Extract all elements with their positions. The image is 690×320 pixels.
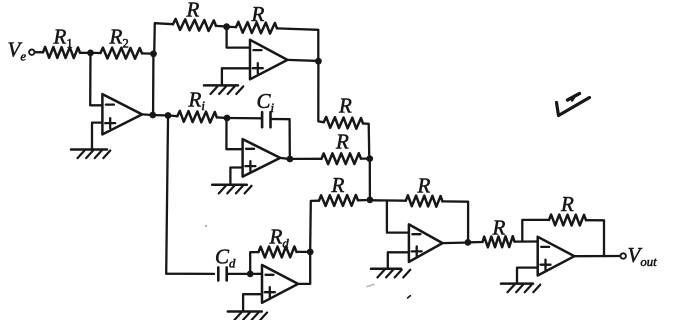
wire: [387, 201, 409, 233]
input terminal Ve: [8, 38, 35, 64]
resistor R (U4 feedback): [406, 174, 443, 207]
resistor R (P input): [173, 0, 216, 31]
svg-text:R: R: [417, 174, 431, 198]
wire: [156, 114, 166, 117]
ground: [228, 312, 267, 320]
wire: [243, 294, 262, 311]
svg-text:Ri: Ri: [188, 87, 206, 113]
ground: [212, 185, 251, 194]
svg-text:R: R: [338, 94, 352, 118]
wire: [515, 240, 538, 242]
resistor R (P output): [324, 94, 363, 129]
wire: [154, 23, 173, 54]
svg-text:Ci: Ci: [257, 89, 275, 115]
wire: [271, 119, 290, 156]
wire: [92, 123, 102, 150]
wire: [443, 201, 469, 238]
wire: [227, 27, 250, 48]
wire: [230, 26, 236, 29]
wire: [586, 220, 604, 256]
wire: [227, 273, 247, 275]
node O2: [315, 58, 322, 65]
node X1: [149, 112, 156, 119]
wire: [287, 59, 315, 62]
wire: [574, 255, 620, 258]
node T1: [223, 23, 230, 30]
ground: [371, 269, 410, 278]
svg-text:Cd: Cd: [215, 245, 236, 271]
wire: [217, 116, 224, 119]
wire: [363, 124, 369, 156]
svg-text:R: R: [560, 192, 574, 216]
wire: [90, 53, 102, 105]
resistor R2: [101, 25, 143, 59]
wire: [471, 241, 482, 244]
wire: [522, 220, 549, 242]
stray speck: [408, 296, 411, 298]
wire: [310, 201, 319, 249]
wire: [142, 113, 150, 116]
resistor R (I output): [322, 130, 362, 165]
op-amp U1: [102, 94, 142, 134]
wire: [226, 121, 242, 150]
wire: [80, 52, 88, 54]
svg-text:R1: R1: [53, 25, 73, 51]
resistor Rd: [259, 225, 297, 258]
wire: [298, 255, 310, 284]
node X2: [165, 112, 172, 119]
svg-text:R: R: [331, 173, 345, 197]
ground: [501, 284, 540, 293]
node S2 (summing node): [367, 197, 374, 204]
wire: [216, 25, 223, 28]
resistor Ri: [177, 87, 216, 122]
capacitor Ci: [257, 89, 275, 127]
op-amp U2: [250, 40, 287, 80]
svg-text:Ve: Ve: [8, 38, 27, 64]
wire: [35, 51, 43, 53]
wire: [318, 65, 324, 123]
op-amp U6: [262, 265, 298, 303]
wire: [230, 168, 242, 185]
wire: [152, 57, 155, 112]
svg-text:R: R: [186, 0, 200, 22]
node Ji: [224, 115, 231, 122]
wire: [253, 273, 262, 275]
wire: [443, 241, 465, 244]
stray faint scratch: [367, 284, 374, 286]
wire: [280, 157, 287, 160]
wire: [297, 251, 307, 253]
op-amp U4: [409, 224, 443, 262]
wire: [517, 268, 538, 284]
svg-text:R2: R2: [109, 25, 129, 51]
node O4: [465, 239, 472, 246]
node S1: [366, 155, 373, 162]
stray speck: [205, 225, 207, 227]
resistor R1: [43, 25, 80, 59]
wire: [361, 157, 367, 159]
wire: [142, 52, 151, 54]
wire: [358, 199, 366, 201]
resistor R (D output): [319, 173, 358, 206]
node B: [150, 50, 157, 57]
wire: [222, 68, 250, 85]
resistor R (op-amp U2 feedback): [236, 2, 277, 34]
svg-text:R: R: [335, 130, 349, 154]
node Jrd: [307, 249, 314, 256]
output terminal Vout: [621, 243, 658, 269]
wire: [293, 158, 322, 160]
node A: [87, 50, 94, 57]
wire: [369, 162, 371, 197]
wire: [388, 252, 409, 268]
op-amp U3: [243, 139, 281, 177]
node Jd: [247, 271, 254, 278]
stray checkmark mark: [557, 94, 590, 116]
ground: [71, 150, 110, 159]
wire: [171, 114, 178, 117]
wire: [373, 199, 406, 202]
resistor R (U5 input): [483, 216, 515, 248]
wire: [250, 252, 258, 271]
svg-text:Vout: Vout: [628, 243, 658, 269]
svg-text:R: R: [251, 2, 265, 26]
resistor R (U5 feedback): [549, 192, 586, 226]
svg-text:Rd: Rd: [269, 225, 290, 251]
wire: [166, 119, 214, 274]
ground: [204, 85, 243, 94]
wire: [93, 52, 101, 54]
capacitor Cd: [215, 245, 236, 281]
node O3: [287, 156, 294, 163]
svg-text:R: R: [492, 216, 506, 240]
wire: [277, 28, 318, 57]
wire: [230, 117, 262, 120]
op-amp U5: [538, 237, 575, 276]
